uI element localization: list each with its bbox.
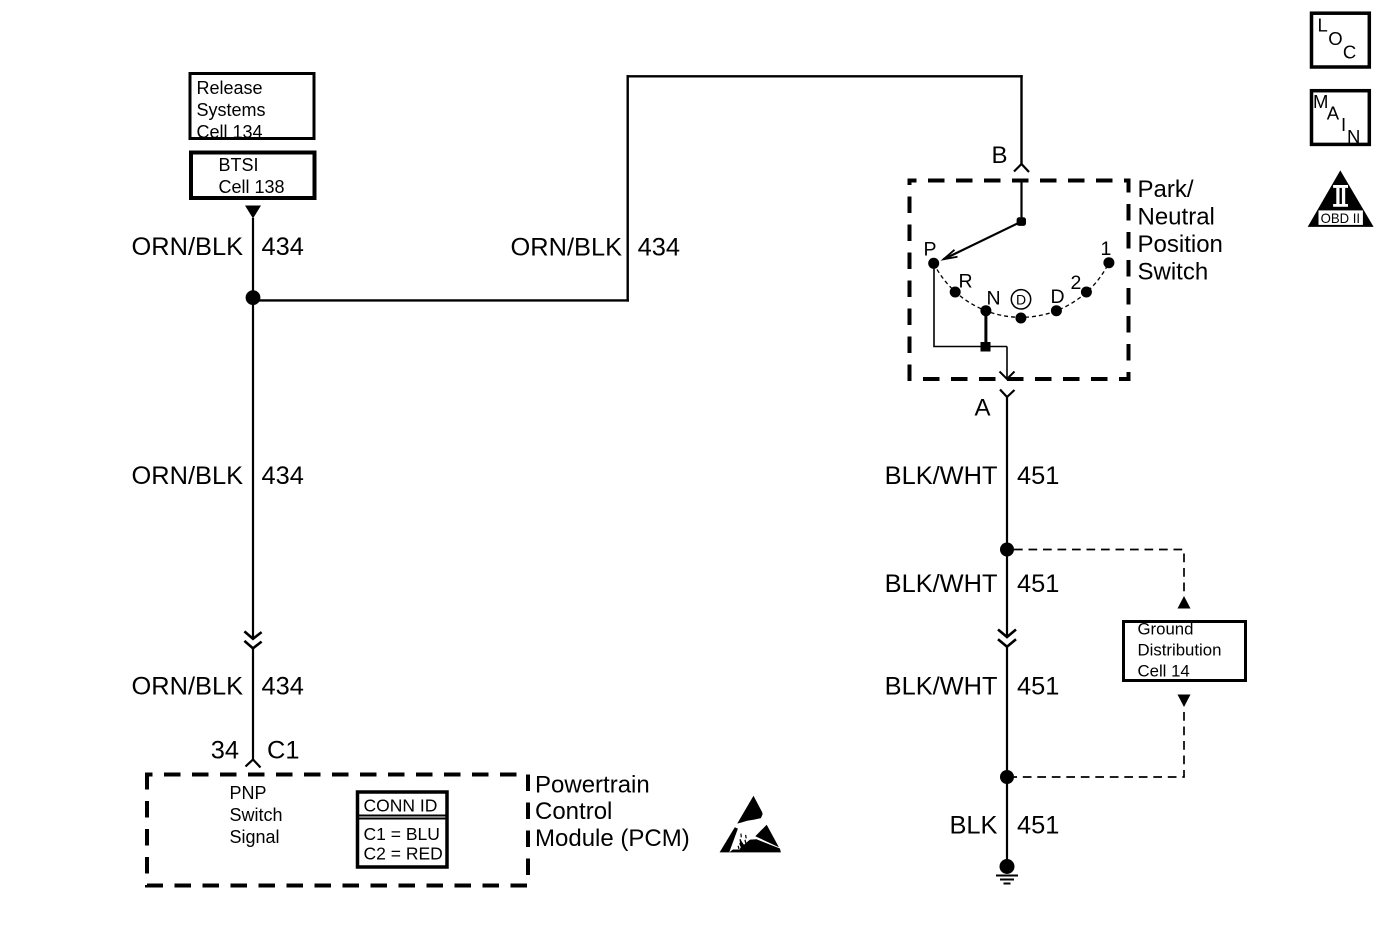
label D circled bbox=[1011, 290, 1030, 309]
label ORN/BLK 434 top-left bbox=[132, 233, 304, 261]
svg-text:BLK/WHT: BLK/WHT bbox=[885, 673, 998, 701]
triangle arrow up bbox=[1178, 596, 1191, 609]
connector Y at A bbox=[1000, 390, 1015, 398]
svg-text:CONN ID: CONN ID bbox=[364, 796, 438, 816]
triangle arrow down bbox=[1178, 695, 1191, 708]
switch contact D-drive bbox=[1015, 313, 1026, 324]
svg-text:Park/: Park/ bbox=[1138, 176, 1194, 203]
svg-text:Signal: Signal bbox=[230, 827, 280, 847]
svg-text:451: 451 bbox=[1017, 462, 1059, 490]
box BTSI Cell 138 bbox=[191, 153, 315, 199]
svg-text:L: L bbox=[1318, 15, 1328, 36]
junction node splice bbox=[246, 290, 261, 305]
svg-text:ORN/BLK: ORN/BLK bbox=[132, 233, 244, 261]
wire right vertical BLK lower bbox=[1006, 646, 1008, 866]
in-line connector double chevron right wire bbox=[998, 630, 1016, 647]
wire vertical to B bbox=[1020, 75, 1022, 164]
svg-text:Cell 14: Cell 14 bbox=[1138, 662, 1190, 681]
svg-text:ORN/BLK: ORN/BLK bbox=[132, 673, 244, 701]
wire to A with arrow bbox=[1000, 347, 1015, 380]
svg-text:OBD II: OBD II bbox=[1321, 210, 1361, 226]
wire horizontal mid bbox=[253, 299, 629, 301]
wire from P contact down bbox=[934, 269, 1007, 347]
box Release Systems Cell 134 bbox=[190, 74, 314, 143]
svg-text:C: C bbox=[1343, 42, 1356, 63]
svg-text:O: O bbox=[1328, 28, 1342, 49]
label BLK/WHT 451 upper bbox=[885, 462, 1060, 490]
dashed link to Ground Distribution upper bbox=[1014, 550, 1184, 593]
svg-text:Cell 134: Cell 134 bbox=[197, 122, 263, 142]
svg-text:BLK: BLK bbox=[950, 812, 998, 840]
in-line connector double chevron left wire bbox=[244, 631, 261, 648]
svg-text:Cell 138: Cell 138 bbox=[219, 177, 285, 197]
svg-text:D: D bbox=[1016, 291, 1026, 307]
switch contact P bbox=[928, 258, 939, 269]
svg-text:C2 = RED: C2 = RED bbox=[364, 844, 443, 864]
svg-text:PNP: PNP bbox=[230, 783, 267, 803]
svg-text:C1: C1 bbox=[267, 737, 299, 765]
switch wiper arrow bbox=[944, 222, 1022, 260]
table CONN ID bbox=[358, 792, 448, 867]
label BLK 451 bbox=[950, 812, 1060, 840]
ESD symbol bbox=[720, 796, 781, 853]
svg-text:C1 = BLU: C1 = BLU bbox=[364, 824, 440, 844]
svg-text:1: 1 bbox=[1101, 238, 1112, 260]
label ORN/BLK 434 lower bbox=[132, 673, 304, 701]
connector caret at PCM C1 bbox=[246, 760, 261, 768]
svg-text:434: 434 bbox=[262, 673, 304, 701]
wire right vertical BLK/WHT upper bbox=[1006, 397, 1008, 637]
wire left vertical ORN/BLK lower bbox=[252, 648, 254, 759]
svg-text:Switch: Switch bbox=[1138, 259, 1209, 286]
wire left vertical ORN/BLK upper bbox=[252, 218, 254, 639]
wire vertical mid bbox=[627, 75, 629, 302]
svg-text:Switch: Switch bbox=[230, 805, 283, 825]
svg-text:Powertrain: Powertrain bbox=[535, 772, 650, 799]
text PNP Switch Signal bbox=[230, 783, 283, 847]
svg-text:Release: Release bbox=[197, 78, 263, 98]
box Ground Distribution Cell 14 bbox=[1124, 620, 1246, 681]
icon LOC bbox=[1312, 13, 1370, 67]
switch contact D bbox=[1051, 305, 1062, 316]
svg-text:BLK/WHT: BLK/WHT bbox=[885, 570, 998, 598]
junction node wiper pivot bbox=[1017, 217, 1026, 226]
svg-text:Control: Control bbox=[535, 798, 612, 825]
svg-text:451: 451 bbox=[1017, 673, 1059, 701]
svg-text:N: N bbox=[987, 288, 1001, 310]
junction node right lower bbox=[1000, 770, 1014, 784]
text Powertrain Control Module (PCM) bbox=[535, 772, 690, 853]
svg-text:Neutral: Neutral bbox=[1138, 204, 1215, 231]
svg-text:D: D bbox=[1051, 286, 1065, 308]
junction square bbox=[981, 342, 991, 352]
svg-text:434: 434 bbox=[262, 233, 304, 261]
icon MAIN bbox=[1312, 91, 1370, 147]
label BLK/WHT 451 lower bbox=[885, 673, 1060, 701]
svg-text:ORN/BLK: ORN/BLK bbox=[132, 462, 244, 490]
switch contact N bbox=[980, 305, 991, 316]
dashed box PCM bbox=[147, 775, 528, 886]
svg-text:434: 434 bbox=[262, 462, 304, 490]
svg-text:434: 434 bbox=[638, 234, 680, 262]
svg-text:34: 34 bbox=[211, 737, 239, 765]
switch contact R bbox=[950, 287, 961, 298]
junction node right upper bbox=[1000, 543, 1014, 557]
dashed link to Ground Distribution lower bbox=[1014, 712, 1184, 777]
ground symbol bbox=[996, 859, 1018, 884]
dashed box Park/Neutral Position Switch bbox=[910, 181, 1129, 380]
wire horizontal top bbox=[627, 75, 1023, 77]
switch contact arc dashed bbox=[934, 263, 1109, 318]
svg-text:R: R bbox=[959, 271, 973, 293]
svg-text:Distribution: Distribution bbox=[1138, 641, 1222, 660]
icon OBD II bbox=[1308, 170, 1374, 227]
svg-text:BTSI: BTSI bbox=[219, 155, 259, 175]
text Park/Neutral Position Switch bbox=[1138, 176, 1223, 286]
switch contact 2 bbox=[1081, 287, 1092, 298]
label BLK/WHT 451 mid bbox=[885, 570, 1060, 598]
label ORN/BLK 434 mid bbox=[132, 462, 304, 490]
svg-text:451: 451 bbox=[1017, 812, 1059, 840]
svg-text:N: N bbox=[1347, 126, 1360, 147]
svg-text:BLK/WHT: BLK/WHT bbox=[885, 462, 998, 490]
label ORN/BLK 434 top-mid bbox=[511, 234, 680, 262]
svg-text:Position: Position bbox=[1138, 231, 1223, 258]
wire N contact to junction bbox=[984, 311, 987, 348]
svg-text:Ground: Ground bbox=[1138, 620, 1194, 639]
svg-text:I: I bbox=[1341, 114, 1346, 135]
connector caret at B bbox=[1014, 164, 1029, 172]
arrow from BTSI box bbox=[245, 206, 261, 219]
svg-text:P: P bbox=[924, 239, 937, 261]
switch contact 1 bbox=[1103, 257, 1114, 268]
svg-text:A: A bbox=[975, 395, 991, 422]
svg-text:Module (PCM): Module (PCM) bbox=[535, 825, 690, 852]
svg-text:B: B bbox=[992, 142, 1008, 169]
wire B into switch bbox=[1020, 181, 1022, 222]
svg-text:Systems: Systems bbox=[197, 100, 266, 120]
svg-text:A: A bbox=[1327, 103, 1340, 124]
svg-text:ORN/BLK: ORN/BLK bbox=[511, 234, 623, 262]
svg-text:451: 451 bbox=[1017, 570, 1059, 598]
svg-text:2: 2 bbox=[1071, 272, 1082, 294]
